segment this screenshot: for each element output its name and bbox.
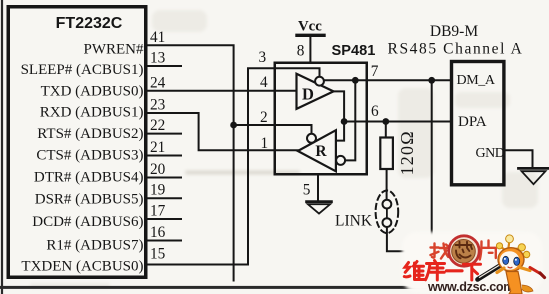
jumper LINK bottom pin: [383, 218, 392, 227]
jumper LINK top pin: [383, 200, 392, 209]
svg-text:DB9-M: DB9-M: [430, 23, 478, 40]
U2 pin 8 stub: [297, 37, 311, 63]
wire GND to ground: [506, 150, 533, 166]
svg-text:24: 24: [150, 74, 166, 91]
svg-text:RTS# (ADBUS2): RTS# (ADBUS2): [37, 126, 143, 142]
connector J1 DB9-M body: [452, 62, 504, 185]
receiver enable bubble: [307, 134, 316, 143]
U1 pin 19: [146, 182, 182, 199]
svg-text:1: 1: [261, 135, 269, 152]
U1 pin 22: [146, 117, 182, 134]
svg-text:21: 21: [150, 139, 165, 156]
driver D triangle: [297, 74, 334, 109]
U1 pin 13: [146, 50, 182, 67]
svg-text:17: 17: [150, 203, 166, 220]
svg-text:TXD (ADBUS0): TXD (ADBUS0): [41, 83, 144, 99]
svg-text:GND: GND: [476, 146, 505, 161]
wire PWREN# pin41 to SP481 enable net: [146, 45, 234, 280]
wire B line down to receiver inverting input: [345, 80, 355, 160]
junction dot A line at apex drop: [341, 118, 348, 125]
U1 pin 16: [146, 224, 182, 241]
svg-text:3: 3: [259, 49, 267, 66]
U1 pin 21: [146, 139, 182, 156]
Vcc power symbol: [297, 18, 324, 35]
IC U2 SP481 body: [275, 63, 367, 175]
svg-text:DTR# (ADBUS4): DTR# (ADBUS4): [34, 169, 144, 185]
junction dot B line at DB9 branch: [428, 77, 435, 84]
svg-text:120Ω: 120Ω: [397, 130, 417, 175]
wire driver output apex to pin 6 A line: [334, 91, 345, 121]
wire between jumper pins: [386, 209, 388, 219]
svg-text:R1# (ADBUS7): R1# (ADBUS7): [46, 237, 143, 253]
resistor R1 120 ohm: [380, 122, 393, 200]
svg-text:20: 20: [150, 161, 166, 178]
svg-text:R: R: [315, 143, 327, 160]
U1 pin 24: [150, 74, 166, 91]
svg-text:16: 16: [150, 224, 166, 241]
svg-text:15: 15: [150, 245, 166, 262]
U1 pin 20: [146, 161, 182, 178]
svg-text:RS485 Channel A: RS485 Channel A: [388, 40, 524, 57]
svg-text:PWREN#: PWREN#: [84, 41, 145, 57]
svg-text:19: 19: [150, 182, 166, 199]
watermark artwork (decorative): [402, 232, 545, 294]
svg-text:8: 8: [297, 43, 305, 60]
wire A line down to receiver non-inverting input: [337, 122, 345, 141]
svg-text:DM_A: DM_A: [457, 73, 496, 88]
wire TXDEN pin15 to SP481 pin3 DE and driver enable bubble: [146, 68, 320, 264]
svg-text:CTS# (ADBUS3): CTS# (ADBUS3): [36, 147, 143, 163]
svg-text:2: 2: [260, 109, 268, 126]
svg-text:22: 22: [150, 117, 165, 134]
driver enable bubble: [315, 77, 324, 86]
mascot: [496, 235, 544, 294]
svg-text:DPA: DPA: [458, 114, 487, 130]
U2 pin 5 stub: [303, 176, 318, 201]
svg-text:5: 5: [303, 182, 311, 199]
U1 pin 17: [146, 203, 182, 220]
junction dot B line at x355: [352, 77, 359, 84]
svg-text:Vcc: Vcc: [298, 18, 322, 34]
junction dot PWREN/RE: [230, 122, 237, 129]
svg-text:13: 13: [150, 50, 166, 67]
U1 pin 23: [150, 97, 166, 114]
svg-text:6: 6: [371, 103, 379, 120]
svg-text:RXD (ADBUS1): RXD (ADBUS1): [40, 104, 144, 120]
svg-text:4: 4: [260, 74, 268, 91]
jumper LINK dashed outline: [376, 191, 399, 234]
svg-text:FT2232C: FT2232C: [56, 15, 123, 32]
svg-text:TXDEN (ACBUS0): TXDEN (ACBUS0): [21, 258, 143, 274]
svg-text:SLEEP# (ACBUS1): SLEEP# (ACBUS1): [21, 62, 144, 78]
U1 pin 41: [150, 29, 165, 46]
ground symbol at SP481 pin5: [307, 202, 332, 214]
svg-text:LINK: LINK: [335, 213, 373, 230]
receiver R triangle: [298, 130, 336, 171]
svg-text:www.dzsc.com: www.dzsc.com: [427, 280, 514, 294]
wire RXD pin23 to SP481 pin1 RO: [146, 113, 299, 150]
svg-text:41: 41: [150, 29, 165, 46]
ground symbol at DB9: [519, 168, 549, 184]
IC U1 FT2232C body: [8, 7, 146, 278]
wire TXD pin24 to SP481 pin4 DI: [146, 90, 298, 92]
scan border lines (decorative): [1, 0, 3, 294]
svg-text:DCD# (ADBUS6): DCD# (ADBUS6): [32, 214, 143, 230]
wire RE to SP481 pin2 and receiver enable bubble: [234, 125, 312, 134]
svg-text:23: 23: [150, 97, 166, 114]
receiver inverting input bubble: [336, 156, 345, 165]
svg-text:7: 7: [371, 63, 379, 80]
svg-text:SP481: SP481: [332, 43, 376, 59]
junction dot 120ohm tap on A line: [382, 118, 389, 125]
U1 pin 15: [150, 245, 166, 262]
svg-text:DSR# (ADBUS5): DSR# (ADBUS5): [35, 191, 144, 207]
wire driver inverting output to pin 7 B line: [324, 79, 450, 81]
wire pin 6 A line to DB9: [344, 121, 450, 123]
svg-text:D: D: [302, 85, 314, 104]
wire jumper bottom to B line: [387, 80, 432, 251]
